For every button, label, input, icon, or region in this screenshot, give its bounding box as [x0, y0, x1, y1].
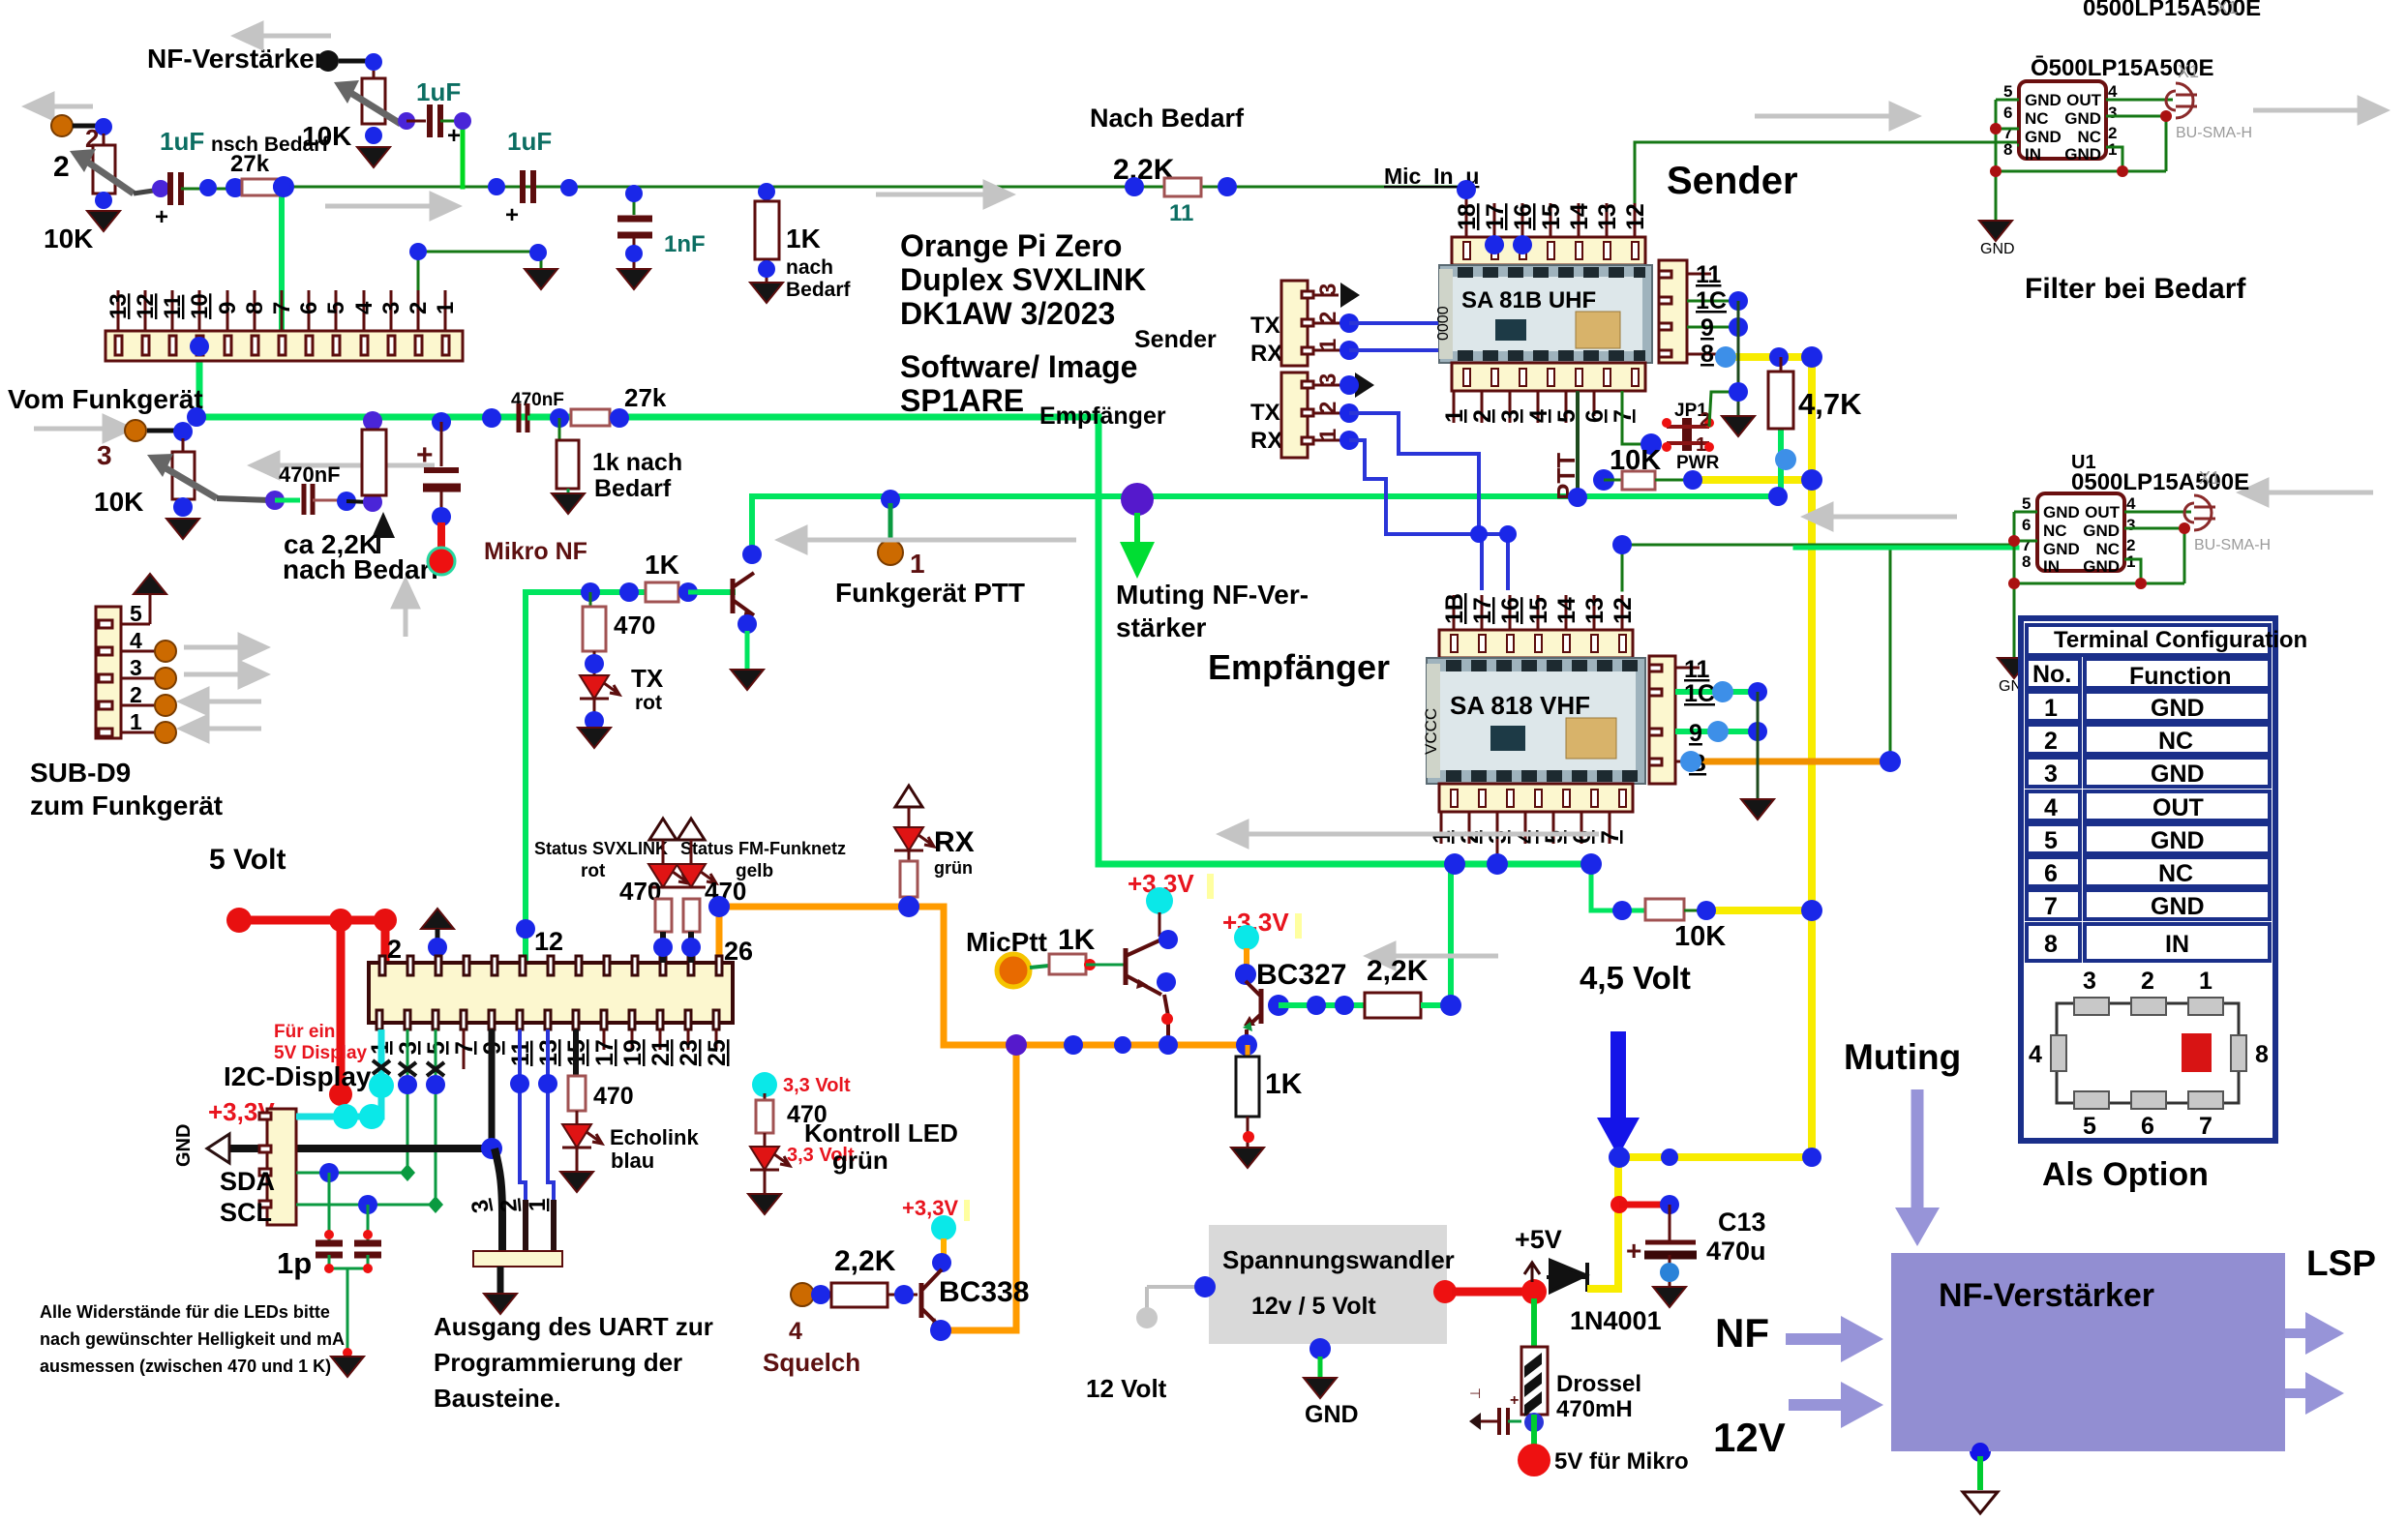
svg-text:GND: GND: [2151, 827, 2205, 854]
svg-text:2: 2: [2044, 728, 2058, 755]
svg-text:GND: GND: [2043, 503, 2080, 522]
svg-text:SP1ARE: SP1ARE: [900, 383, 1024, 418]
svg-text:+: +: [505, 202, 519, 228]
svg-text:Mikro NF: Mikro NF: [484, 538, 587, 565]
svg-text:1: 1: [525, 1199, 551, 1211]
svg-text:470nF: 470nF: [279, 462, 341, 487]
svg-text:SA 818 VHF: SA 818 VHF: [1450, 691, 1590, 720]
svg-text:NC: NC: [2043, 522, 2067, 540]
svg-text:4: 4: [2029, 1041, 2042, 1068]
svg-text:3: 3: [378, 302, 405, 314]
svg-text:6: 6: [2022, 516, 2031, 534]
svg-text:4: 4: [789, 1318, 802, 1345]
svg-text:2: 2: [2141, 968, 2154, 995]
svg-text:2: 2: [1469, 409, 1496, 423]
svg-text:11: 11: [1696, 261, 1722, 288]
svg-text:Bedarf: Bedarf: [594, 475, 672, 502]
svg-text:4: 4: [2126, 494, 2136, 513]
svg-text:+: +: [416, 439, 434, 471]
svg-text:1C: 1C: [1684, 680, 1715, 707]
svg-text:17: 17: [1469, 597, 1496, 624]
svg-text:Squelch: Squelch: [763, 1348, 860, 1377]
svg-text:Function: Function: [2129, 663, 2232, 690]
svg-text:9: 9: [1689, 720, 1702, 747]
svg-text:18: 18: [1454, 203, 1481, 230]
svg-text:1K: 1K: [1265, 1068, 1303, 1100]
svg-text:grün: grün: [934, 858, 973, 878]
svg-text:Echolink: Echolink: [610, 1125, 699, 1149]
svg-text:GND: GND: [2151, 695, 2205, 722]
svg-text:BU-SMA-H: BU-SMA-H: [2194, 537, 2271, 553]
svg-text:Kontroll LED: Kontroll LED: [804, 1118, 958, 1148]
svg-text:1p: 1p: [277, 1246, 312, 1280]
svg-text:3: 3: [2108, 104, 2117, 122]
svg-text:OUT: OUT: [2152, 794, 2204, 821]
svg-text:10K: 10K: [94, 487, 143, 517]
svg-text:4: 4: [1525, 409, 1552, 423]
svg-text:X1: X1: [2216, 0, 2238, 17]
svg-text:SDA: SDA: [220, 1167, 275, 1196]
svg-text:NC: NC: [2158, 728, 2193, 755]
svg-text:1: 1: [2199, 968, 2212, 995]
svg-text:7: 7: [2199, 1113, 2212, 1140]
svg-text:5: 5: [2083, 1113, 2096, 1140]
svg-text:NF-Verstärker: NF-Verstärker: [1939, 1277, 2154, 1314]
svg-text:470u: 470u: [1706, 1237, 1766, 1266]
svg-text:9: 9: [215, 302, 241, 314]
svg-text:+: +: [1510, 1392, 1519, 1409]
svg-text:Als Option: Als Option: [2042, 1156, 2209, 1193]
svg-text:12: 12: [534, 927, 563, 956]
svg-text:stärker: stärker: [1116, 612, 1207, 642]
svg-text:13: 13: [1594, 203, 1621, 230]
svg-text:Programmierung der: Programmierung der: [434, 1348, 682, 1377]
svg-text:OUT: OUT: [2066, 91, 2102, 109]
svg-text:13: 13: [105, 293, 132, 319]
svg-text:Bausteine.: Bausteine.: [434, 1384, 561, 1413]
svg-text:16: 16: [1497, 597, 1524, 624]
svg-text:GND: GND: [2083, 522, 2120, 540]
svg-text:GND: GND: [1980, 241, 2015, 257]
svg-text:8: 8: [242, 302, 268, 314]
svg-text:4,5 Volt: 4,5 Volt: [1580, 960, 1691, 996]
svg-text:Drossel: Drossel: [1556, 1371, 1641, 1397]
svg-text:7: 7: [2044, 893, 2058, 920]
svg-text:Terminal Configuration: Terminal Configuration: [2054, 627, 2307, 653]
svg-text:rot: rot: [635, 692, 662, 714]
svg-text:1: 1: [130, 709, 142, 734]
svg-text:IN: IN: [2043, 557, 2060, 576]
svg-text:12V: 12V: [1713, 1415, 1786, 1460]
svg-text:NC: NC: [2025, 109, 2049, 128]
svg-text:GND: GND: [2083, 557, 2120, 576]
svg-text:8: 8: [1701, 341, 1714, 368]
svg-text:2: 2: [130, 682, 142, 707]
svg-text:Software/ Image: Software/ Image: [900, 349, 1137, 384]
svg-text:15: 15: [1525, 597, 1552, 624]
svg-text:1: 1: [2044, 695, 2058, 722]
svg-text:1N4001: 1N4001: [1570, 1306, 1662, 1335]
svg-text:26: 26: [724, 937, 753, 966]
svg-text:21: 21: [647, 1039, 675, 1066]
svg-text:16: 16: [1510, 203, 1537, 230]
svg-text:1: 1: [2108, 140, 2117, 159]
svg-text:23: 23: [676, 1039, 703, 1066]
svg-text:2,2K: 2,2K: [1367, 955, 1429, 987]
svg-text:3: 3: [97, 440, 112, 470]
svg-text:12v / 5 Volt: 12v / 5 Volt: [1251, 1293, 1376, 1320]
svg-text:11: 11: [1169, 200, 1193, 226]
svg-text:470: 470: [593, 1083, 634, 1110]
svg-text:Orange Pi Zero: Orange Pi Zero: [900, 228, 1122, 263]
svg-text:VCCC: VCCC: [1422, 708, 1440, 755]
svg-text:14: 14: [1566, 203, 1593, 230]
svg-text:TX: TX: [1250, 400, 1280, 426]
svg-text:6: 6: [2141, 1113, 2154, 1140]
svg-text:RX: RX: [1250, 341, 1282, 367]
svg-text:27k: 27k: [230, 151, 270, 177]
svg-text:6: 6: [296, 302, 322, 314]
svg-text:X1: X1: [2178, 62, 2199, 81]
svg-text:nsch Bedarf: nsch Bedarf: [211, 134, 329, 156]
svg-text:2: 2: [53, 151, 70, 183]
svg-text:rot: rot: [581, 861, 606, 881]
svg-text:1K: 1K: [1058, 924, 1096, 956]
svg-text:3: 3: [2126, 516, 2135, 534]
svg-text:Nach Bedarf: Nach Bedarf: [1090, 104, 1245, 133]
svg-text:Duplex SVXLINK: Duplex SVXLINK: [900, 262, 1146, 297]
svg-text:3: 3: [130, 655, 142, 680]
svg-text:3: 3: [1497, 409, 1524, 423]
svg-text:Sender: Sender: [1134, 326, 1217, 353]
svg-text:SCL: SCL: [220, 1198, 272, 1227]
svg-text:9: 9: [1701, 314, 1714, 342]
svg-text:1B: 1B: [1441, 593, 1468, 624]
svg-text:Sender: Sender: [1667, 160, 1798, 202]
svg-text:8: 8: [2003, 140, 2012, 159]
svg-text:Empfänger: Empfänger: [1039, 403, 1166, 430]
svg-text:TX: TX: [1250, 313, 1280, 339]
svg-text:IN: IN: [2165, 931, 2189, 958]
svg-text:11: 11: [1684, 656, 1710, 683]
svg-text:nach Bedarf: nach Bedarf: [283, 554, 439, 584]
svg-text:17: 17: [591, 1039, 618, 1066]
svg-text:Spannungswandler: Spannungswandler: [1222, 1245, 1455, 1274]
svg-text:Ausgang des UART zur: Ausgang des UART zur: [434, 1312, 713, 1341]
svg-text:4: 4: [351, 301, 377, 314]
svg-text:0500LP15A500E: 0500LP15A500E: [2071, 469, 2249, 495]
svg-text:I2C-Display: I2C-Display: [224, 1061, 372, 1091]
svg-text:5: 5: [2022, 494, 2031, 513]
svg-text:7: 7: [269, 302, 295, 314]
svg-text:BU-SMA-H: BU-SMA-H: [2176, 125, 2252, 141]
svg-text:4: 4: [2108, 82, 2118, 101]
svg-text:1: 1: [1441, 409, 1468, 423]
svg-text:4: 4: [130, 628, 142, 653]
svg-text:GND: GND: [2025, 91, 2062, 109]
svg-text:Vom Funkgerät: Vom Funkgerät: [8, 384, 203, 414]
svg-text:12: 12: [1610, 597, 1637, 624]
svg-text:Status FM-Funknetz: Status FM-Funknetz: [680, 839, 846, 858]
svg-text:12: 12: [1622, 203, 1649, 230]
svg-text:14: 14: [1553, 597, 1580, 624]
svg-text:1K: 1K: [786, 224, 821, 253]
svg-text:19: 19: [619, 1039, 647, 1066]
svg-text:1: 1: [1315, 429, 1341, 441]
svg-text:5: 5: [130, 601, 142, 626]
svg-text:10K: 10K: [44, 224, 93, 253]
svg-text:BC338: BC338: [939, 1276, 1029, 1308]
svg-text:1C: 1C: [1696, 287, 1727, 314]
svg-text:2: 2: [1315, 312, 1341, 324]
svg-text:OUT: OUT: [2085, 503, 2121, 522]
svg-text:+5V: +5V: [1515, 1225, 1562, 1254]
svg-text:NF: NF: [1715, 1310, 1769, 1356]
svg-text:15: 15: [1538, 203, 1565, 230]
svg-text:GND: GND: [2064, 109, 2101, 128]
svg-text:Status SVXLINK: Status SVXLINK: [534, 839, 668, 858]
svg-text:GND: GND: [2151, 893, 2205, 920]
svg-text:PWR: PWR: [1676, 453, 1720, 473]
svg-text:2: 2: [387, 935, 402, 964]
svg-text:RX: RX: [934, 826, 975, 858]
svg-text:27k: 27k: [624, 383, 667, 412]
svg-text:X1: X1: [2199, 468, 2220, 488]
svg-text:7: 7: [451, 1041, 478, 1055]
svg-text:8: 8: [2044, 931, 2058, 958]
svg-text:12 Volt: 12 Volt: [1086, 1374, 1167, 1403]
svg-text:470mH: 470mH: [1556, 1396, 1633, 1422]
svg-text:3: 3: [1315, 283, 1341, 296]
svg-text:1nF: 1nF: [664, 231, 706, 257]
svg-text:0000: 0000: [1435, 306, 1452, 341]
svg-text:3,3 Volt: 3,3 Volt: [783, 1075, 851, 1096]
svg-text:6: 6: [2003, 104, 2012, 122]
svg-text:nach: nach: [786, 256, 833, 279]
svg-text:GND: GND: [2064, 145, 2101, 164]
svg-text:GND: GND: [2151, 760, 2205, 788]
svg-text:+: +: [155, 204, 168, 230]
svg-text:zum Funkgerät: zum Funkgerät: [30, 790, 223, 820]
svg-text:5: 5: [2044, 827, 2058, 854]
svg-text:1: 1: [2126, 552, 2135, 571]
svg-text:NC: NC: [2077, 128, 2101, 146]
svg-text:SUB-D9: SUB-D9: [30, 758, 131, 788]
svg-text:10K: 10K: [1674, 921, 1726, 952]
svg-text:grün: grün: [832, 1146, 888, 1175]
svg-text:4,7K: 4,7K: [1798, 387, 1862, 421]
svg-text:2: 2: [1315, 402, 1341, 414]
svg-text:SA 81B UHF: SA 81B UHF: [1461, 287, 1596, 313]
svg-text:25: 25: [704, 1039, 731, 1066]
svg-text:6: 6: [1581, 409, 1609, 423]
svg-text:12: 12: [133, 293, 159, 319]
svg-text:1uF: 1uF: [507, 127, 552, 156]
svg-text:3: 3: [2083, 968, 2096, 995]
svg-text:C13: C13: [1718, 1208, 1766, 1237]
svg-text:Funkgerät PTT: Funkgerät PTT: [835, 578, 1025, 608]
svg-text:⊣: ⊣: [1469, 1386, 1481, 1401]
svg-text:GND: GND: [2025, 128, 2062, 146]
svg-text:1k nach: 1k nach: [592, 449, 682, 476]
svg-text:3: 3: [2044, 760, 2058, 788]
svg-text:1uF: 1uF: [416, 77, 461, 106]
svg-text:11: 11: [160, 295, 186, 319]
svg-text:1: 1: [433, 302, 459, 314]
svg-text:TX: TX: [631, 664, 664, 693]
svg-text:nach gewünschter Helligkeit un: nach gewünschter Helligkeit und mA: [40, 1329, 345, 1349]
svg-text:1: 1: [910, 549, 925, 579]
svg-text:Empfänger: Empfänger: [1208, 647, 1390, 687]
svg-text:+3,3V: +3,3V: [902, 1196, 958, 1220]
svg-text:BC327: BC327: [1256, 959, 1346, 991]
svg-text:IN: IN: [2025, 145, 2041, 164]
svg-text:Filter bei Bedarf: Filter bei Bedarf: [2025, 273, 2246, 305]
svg-text:No.: No.: [2032, 661, 2071, 688]
svg-text:Für ein: Für ein: [274, 1022, 335, 1042]
svg-text:NC: NC: [2158, 860, 2193, 887]
svg-text:7: 7: [1597, 830, 1624, 844]
svg-text:5: 5: [2003, 82, 2012, 101]
svg-text:blau: blau: [611, 1148, 654, 1173]
svg-text:8: 8: [2255, 1041, 2269, 1068]
svg-text:NF-Verstärker: NF-Verstärker: [147, 44, 325, 74]
svg-text:MicPtt: MicPtt: [966, 927, 1047, 957]
svg-text:GND: GND: [2043, 540, 2080, 558]
svg-text:Muting NF-Ver-: Muting NF-Ver-: [1116, 580, 1309, 610]
svg-text:NC: NC: [2095, 540, 2120, 558]
svg-text:5V für Mikro: 5V für Mikro: [1554, 1448, 1689, 1475]
svg-text:10: 10: [187, 293, 213, 319]
svg-text:Bedarf: Bedarf: [786, 279, 852, 301]
svg-text:6: 6: [2044, 860, 2058, 887]
svg-text:13: 13: [1581, 597, 1609, 624]
svg-text:1uF: 1uF: [160, 127, 204, 156]
svg-text:2,2K: 2,2K: [834, 1245, 896, 1277]
svg-text:GND: GND: [173, 1124, 195, 1167]
svg-text:ausmessen (zwischen 470 und 1: ausmessen (zwischen 470 und 1 K): [40, 1357, 331, 1376]
svg-text:Muting: Muting: [1844, 1037, 1961, 1077]
svg-text:5V Display: 5V Display: [274, 1043, 368, 1063]
svg-text:1: 1: [1315, 339, 1341, 351]
svg-text:5 Volt: 5 Volt: [209, 844, 286, 876]
svg-text:Alle Widerstände für die LEDs: Alle Widerstände für die LEDs bitte: [40, 1302, 330, 1322]
svg-text:8: 8: [2022, 552, 2031, 571]
svg-text:+: +: [1626, 1236, 1641, 1266]
svg-text:5: 5: [323, 302, 349, 314]
svg-text:4: 4: [2044, 794, 2058, 821]
svg-text:GND: GND: [1305, 1401, 1359, 1428]
svg-text:17: 17: [1482, 203, 1509, 230]
svg-text:DK1AW 3/2023: DK1AW 3/2023: [900, 296, 1115, 331]
svg-text:RX: RX: [1250, 428, 1282, 454]
svg-text:1: 1: [1696, 434, 1706, 456]
svg-text:470: 470: [614, 611, 655, 640]
svg-text:3: 3: [1315, 373, 1341, 386]
svg-text:1K: 1K: [645, 550, 679, 580]
svg-text:2: 2: [496, 1198, 523, 1213]
svg-text:2: 2: [406, 302, 432, 314]
svg-text:LSP: LSP: [2306, 1243, 2376, 1283]
